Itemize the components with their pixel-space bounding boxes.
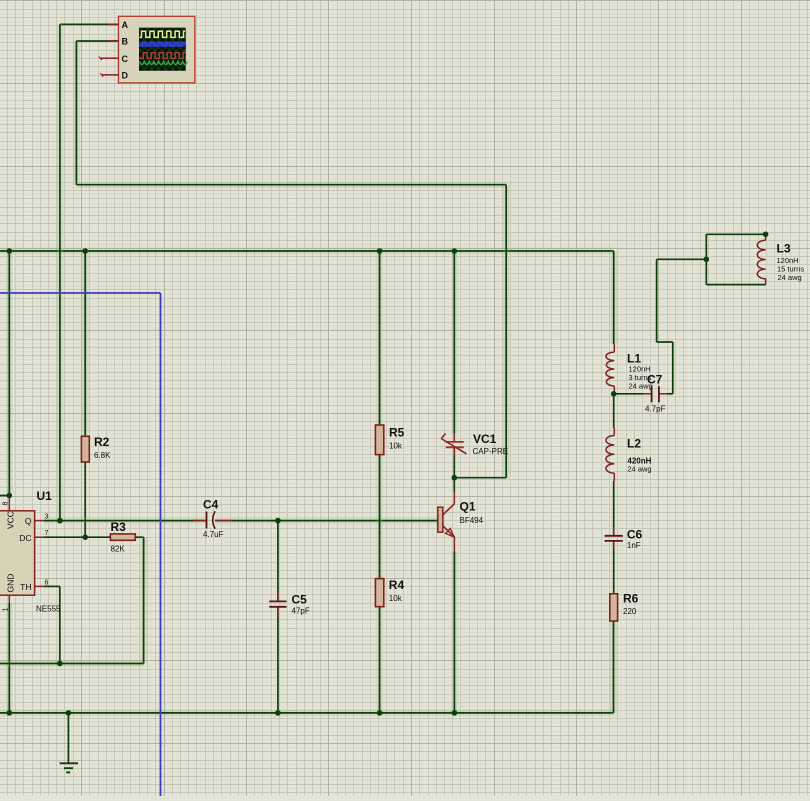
wire: top supply rail y=251	[0, 248, 614, 255]
svg-text:GND: GND	[6, 574, 16, 593]
wire: Q1 emitter to rail	[451, 552, 458, 713]
wire: 555 TH pin6 horizontal	[44, 585, 60, 587]
svg-text:L3: L3	[777, 242, 791, 256]
blue region border vertical	[160, 293, 162, 796]
wire: L2 bottom to C6	[613, 481, 615, 536]
scope trace channel C red square	[140, 53, 186, 59]
svg-text:R4: R4	[389, 578, 405, 592]
svg-text:8: 8	[2, 502, 9, 506]
ground	[67, 713, 69, 763]
wire: R4 bottom to rail	[376, 607, 383, 713]
wire: left vertical to 555 pin8	[6, 251, 13, 496]
svg-text:Q1: Q1	[460, 500, 476, 514]
svg-text:1nF: 1nF	[627, 541, 641, 550]
junction node J16	[611, 391, 617, 397]
capacitor C6	[613, 527, 615, 536]
oscilloscope pin A	[108, 23, 118, 25]
wire: R3 feedback vertical x=143.6	[140, 537, 147, 663]
junction node J14	[377, 710, 383, 716]
junction node J4	[452, 248, 458, 254]
junction node J3	[377, 248, 383, 254]
capacitor C7	[644, 393, 652, 395]
wire: feedback horizontal y=663.5	[0, 660, 144, 667]
junction node J9	[452, 475, 458, 481]
scope trace channel B blue noisy	[140, 42, 186, 47]
oscilloscope body	[118, 16, 194, 83]
wire: scope channel A horizontal	[60, 23, 119, 25]
svg-text:TH: TH	[20, 582, 31, 592]
svg-text:220: 220	[623, 607, 637, 616]
oscilloscope pin C unconnected	[100, 57, 118, 59]
capacitor C5	[277, 592, 279, 601]
svg-text:10k: 10k	[389, 442, 403, 451]
svg-text:CAP-PRE: CAP-PRE	[473, 447, 509, 456]
resistor R2	[81, 436, 89, 462]
svg-text:B: B	[122, 36, 129, 46]
svg-text:NE555: NE555	[36, 605, 61, 614]
wire: R3 right to corner	[135, 536, 143, 538]
transistor Q1 BF494	[438, 507, 443, 532]
svg-text:C6: C6	[627, 528, 643, 542]
wire: stub to left edge at pin8 node	[0, 495, 9, 497]
svg-text:R2: R2	[94, 435, 110, 449]
wire: R5 bottom to R4 top	[376, 455, 383, 579]
svg-text:24 awg: 24 awg	[627, 465, 651, 474]
resistor R4	[375, 579, 383, 607]
wire: R6 bottom to rail corner	[610, 621, 617, 713]
junction node J11	[7, 710, 13, 716]
wire: L1 bottom node to L2	[613, 394, 615, 428]
junction node J5	[7, 493, 13, 499]
svg-text:R3: R3	[111, 520, 127, 534]
wire: 555 pin1 to bottom rail	[6, 603, 13, 713]
svg-text:C: C	[122, 54, 129, 64]
wire: C7 right to corner	[667, 393, 673, 395]
U1 pin 7 stub	[35, 536, 44, 538]
junction node J2	[82, 248, 88, 254]
svg-text:L1: L1	[627, 352, 641, 366]
wire: L3 loop bottom	[706, 284, 765, 286]
svg-text:10k: 10k	[389, 594, 403, 603]
wire: channel B vertical x=506.2	[503, 185, 510, 478]
oscilloscope screen	[139, 28, 186, 71]
svg-text:6.8K: 6.8K	[94, 451, 111, 460]
capacitor C4	[193, 520, 207, 522]
wire: scope channel B horizontal	[76, 40, 118, 42]
wire: C7 vertical x=672.8	[672, 342, 674, 394]
U1 pin 1 stub	[8, 595, 10, 603]
svg-text:R5: R5	[389, 426, 405, 440]
wire: L3 loop top	[706, 233, 765, 235]
junction node J18	[763, 232, 769, 238]
blue region border horizontal	[0, 292, 161, 294]
inductor L3	[765, 234, 767, 240]
svg-text:120nH: 120nH	[629, 365, 651, 374]
wire: scope channel A vertical	[57, 24, 64, 520]
svg-text:DC: DC	[19, 533, 31, 543]
wire: bottom ground rail y=712.9	[0, 710, 614, 717]
svg-text:82K: 82K	[111, 545, 126, 554]
svg-text:Q: Q	[25, 516, 32, 526]
svg-text:C4: C4	[203, 498, 219, 512]
wire: R2 top branch x=85.2	[82, 251, 89, 436]
junction node J10	[57, 661, 63, 667]
wire: L1/C7 tap horizontal y=393.8	[614, 393, 644, 395]
svg-text:4.7pF: 4.7pF	[645, 405, 666, 414]
svg-text:VC1: VC1	[473, 432, 497, 446]
resistor R5	[375, 425, 383, 455]
wire: VC1 bottom to collector node	[453, 447, 455, 491]
wire: scope channel B vertical upper	[73, 41, 80, 185]
wire: 555 DC pin7 to R3	[44, 536, 110, 538]
junction node J13	[275, 710, 281, 716]
wire: C6 bottom to R6	[613, 541, 615, 594]
svg-text:24 awg: 24 awg	[778, 273, 802, 282]
svg-text:D: D	[122, 71, 129, 81]
svg-text:A: A	[122, 20, 129, 30]
svg-text:24 awg: 24 awg	[629, 382, 653, 391]
wire: rail corner down to L1	[610, 251, 617, 344]
wire: L3 loop left vertical	[705, 234, 707, 284]
svg-text:4.7uF: 4.7uF	[203, 530, 224, 539]
oscilloscope pin D unconnected	[102, 74, 119, 76]
resistor R3	[110, 534, 135, 540]
svg-text:U1: U1	[37, 489, 53, 503]
svg-text:VCC: VCC	[6, 511, 16, 529]
wire: VC1 top branch x=454.3	[451, 251, 458, 434]
svg-text:1: 1	[2, 608, 9, 612]
U1 pin 6 stub	[35, 585, 44, 587]
svg-text:3: 3	[45, 514, 49, 521]
svg-text:L2: L2	[627, 437, 641, 451]
svg-text:47pF: 47pF	[292, 607, 310, 616]
wire: feed to L3 y=259.3	[657, 258, 707, 260]
svg-text:R6: R6	[623, 592, 639, 606]
inductor L1	[613, 344, 615, 352]
junction node J6	[57, 518, 63, 524]
wire: channel B link to collector node	[454, 477, 506, 479]
junction node J7	[275, 518, 281, 524]
inductor L2	[613, 428, 615, 436]
wire: R2 bottom to pin7 net	[84, 462, 86, 537]
scope trace channel D green sine	[140, 61, 188, 64]
junction node J8	[82, 534, 88, 540]
svg-text:6: 6	[45, 579, 49, 586]
svg-text:BF494: BF494	[460, 516, 484, 525]
variable capacitor VC1	[453, 434, 455, 442]
wire: C4 to Q1 base	[215, 517, 438, 524]
oscilloscope pin B	[108, 40, 118, 42]
svg-text:C5: C5	[292, 593, 308, 607]
U1 pin 8 stub	[8, 496, 10, 511]
wire: staircase horizontal y=342	[657, 341, 673, 343]
svg-text:7: 7	[45, 530, 49, 537]
junction node J1	[7, 248, 13, 254]
wire: R5 top branch x=379.6	[376, 251, 383, 425]
resistor R6	[610, 594, 618, 621]
wire: channel B long horizontal y=184.7	[76, 181, 506, 188]
wire: 555 Q output to C4	[44, 517, 207, 524]
junction node J15	[452, 710, 458, 716]
wire: TH vertical down x=59.8	[59, 586, 61, 663]
junction node J17	[704, 257, 710, 263]
wire: C5 branch vertical upper	[277, 521, 279, 602]
ic U1 NE555 timer body	[0, 511, 35, 595]
junction node J12	[66, 710, 72, 716]
wire: staircase vertical x=656.6	[656, 259, 658, 342]
U1 pin 3 stub	[35, 520, 44, 522]
wire: C5 branch vertical lower	[277, 607, 279, 713]
scope trace channel A yellow square	[140, 31, 186, 37]
